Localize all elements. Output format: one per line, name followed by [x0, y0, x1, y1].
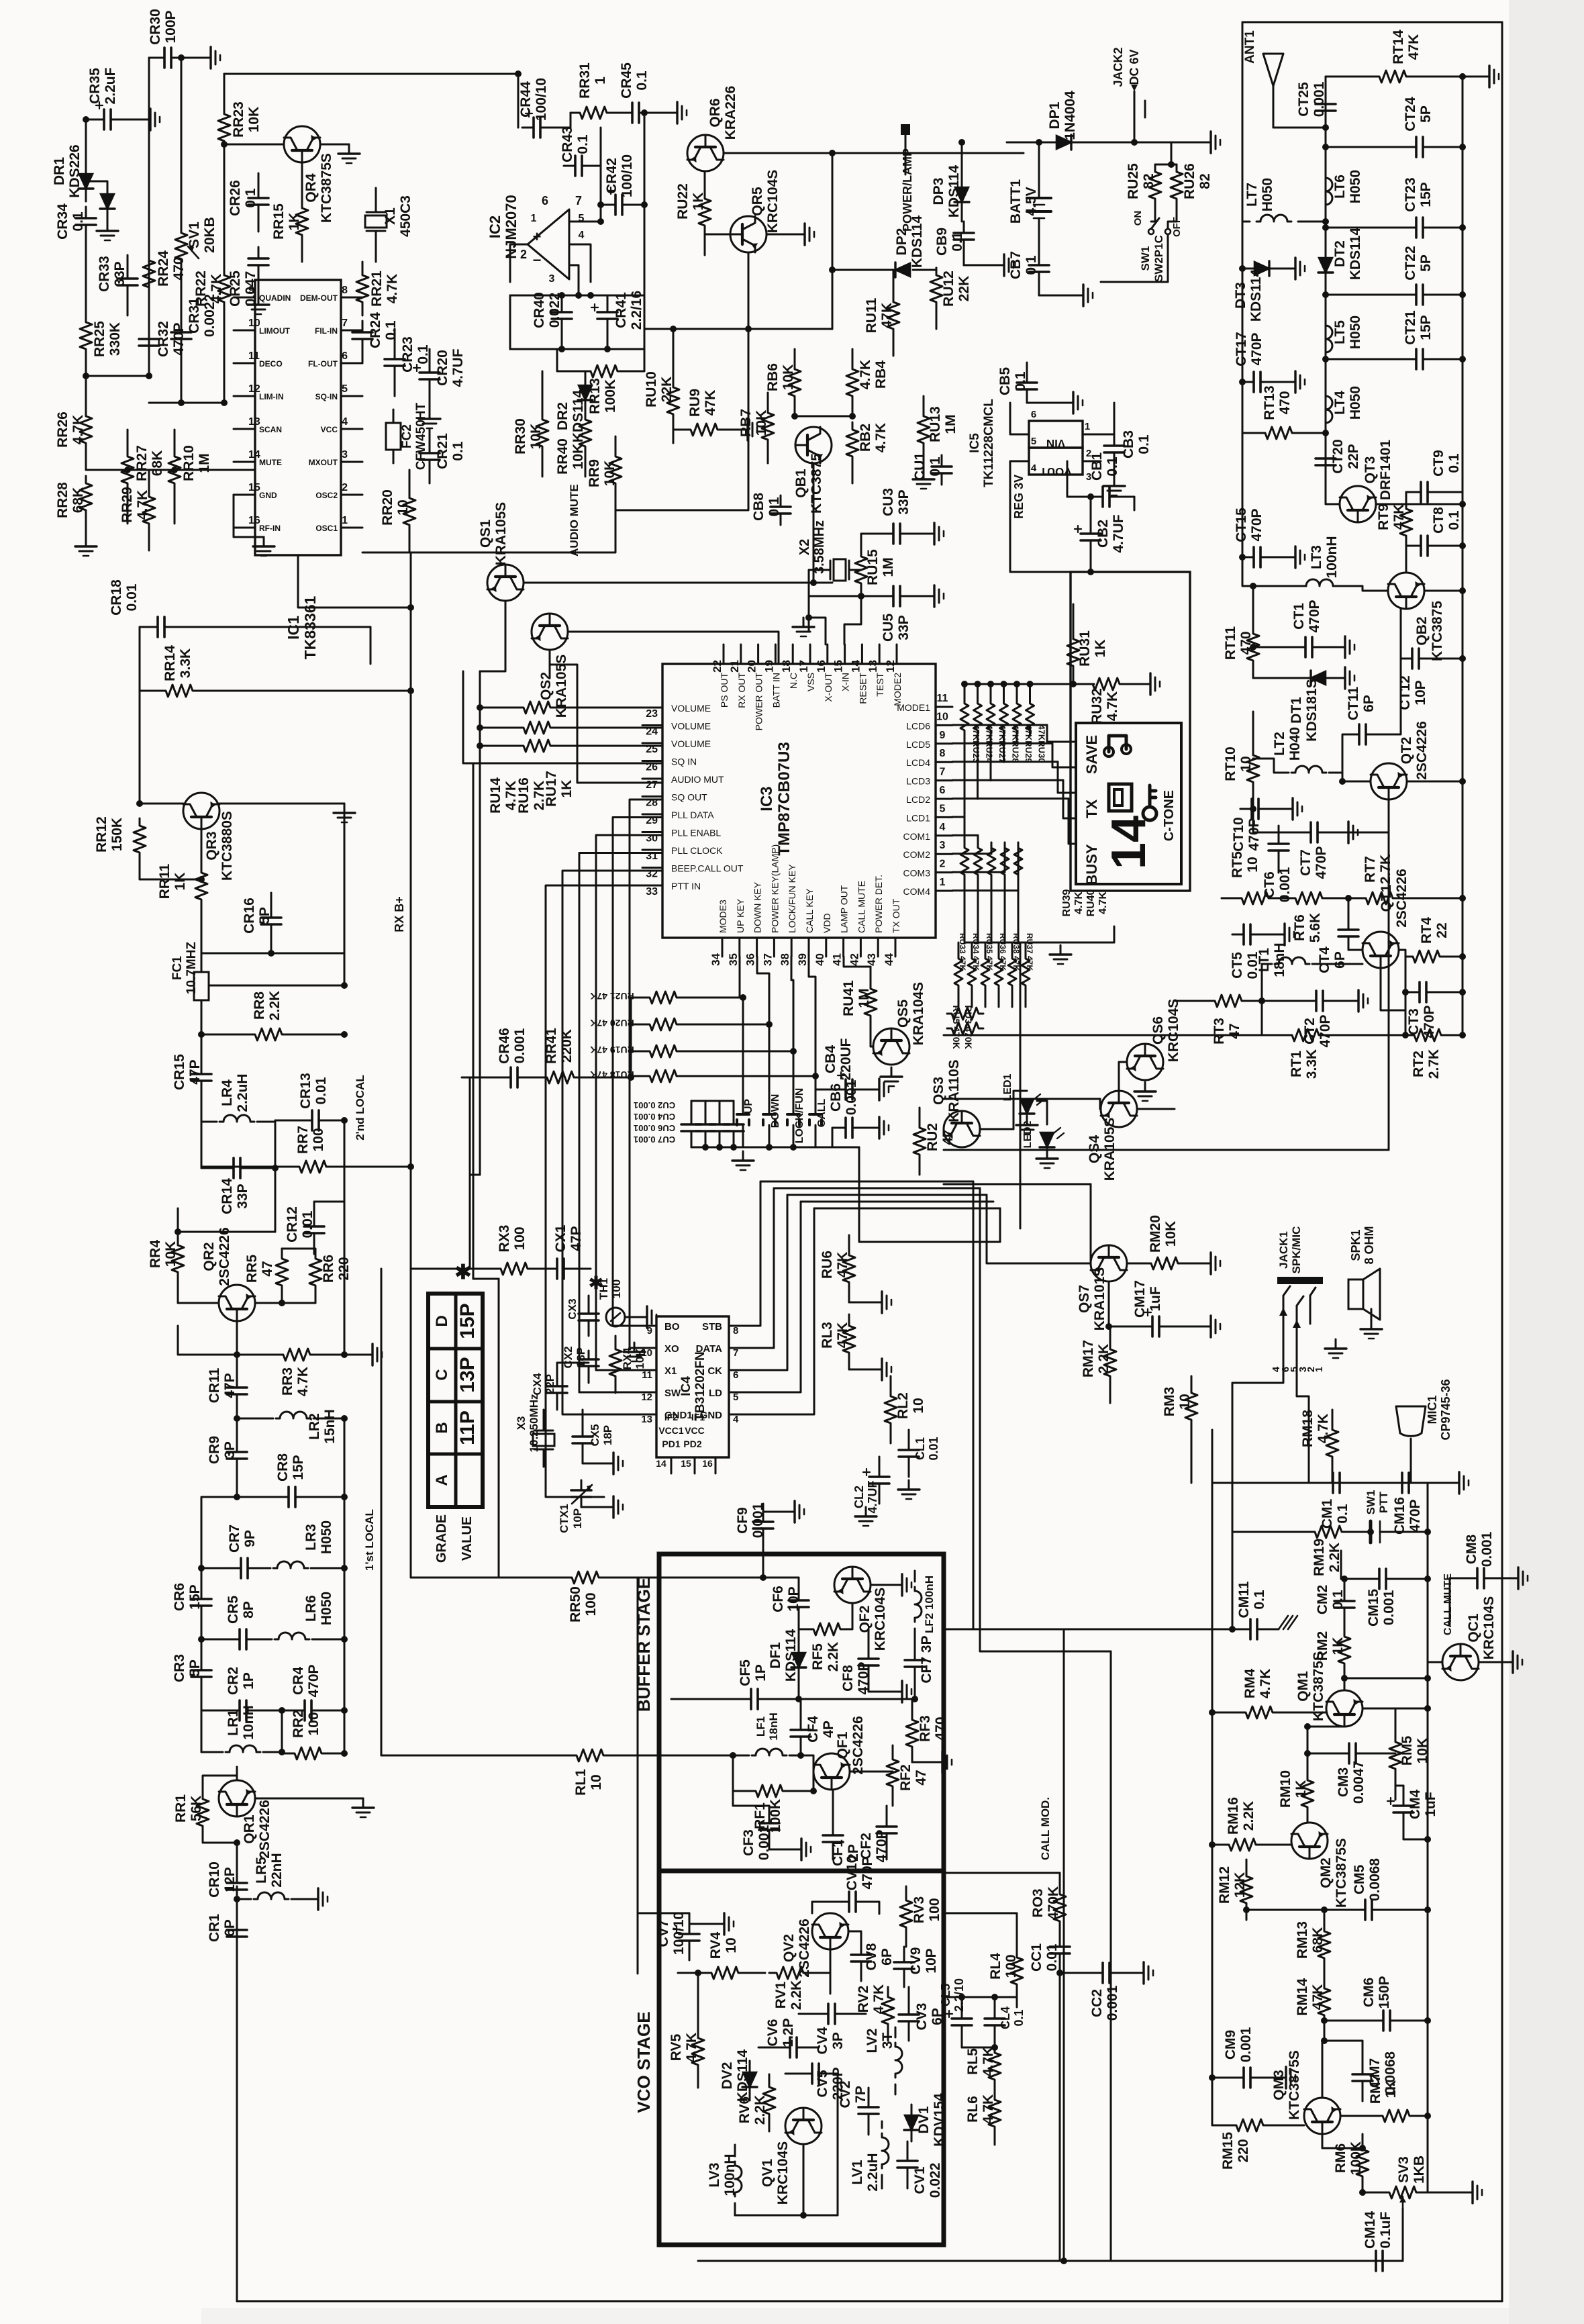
wire IC2 pins right [569, 221, 601, 223]
wire pin41 to RU41 [844, 957, 871, 967]
capacitor CB5 0.1 [1026, 371, 1028, 383]
svg-text:470P: 470P [1249, 332, 1265, 365]
svg-text:−: − [533, 252, 542, 269]
svg-text:DV1: DV1 [916, 2106, 932, 2133]
svg-text:X3: X3 [515, 1416, 528, 1431]
svg-text:CC2: CC2 [1089, 1989, 1105, 2017]
svg-text:38: 38 [779, 953, 791, 966]
capacitor CU1 0.1 [941, 455, 943, 467]
svg-text:QS1: QS1 [478, 520, 493, 548]
svg-text:10K: 10K [781, 365, 796, 391]
svg-text:LCD2: LCD2 [906, 794, 930, 805]
capacitor CF8 470P [868, 1649, 870, 1659]
svg-text:8: 8 [733, 1325, 738, 1337]
svg-text:QR2: QR2 [201, 1242, 217, 1271]
svg-text:IF2: IF2 [664, 1412, 678, 1422]
svg-text:CT4: CT4 [1317, 947, 1332, 973]
wire power/lamp [905, 134, 907, 175]
resistor RR41 220K [540, 1071, 581, 1083]
svg-text:+: + [533, 228, 542, 245]
svg-text:RR27: RR27 [134, 445, 150, 481]
capacitor CR8 15P [277, 1496, 289, 1498]
svg-text:CM9: CM9 [1223, 2030, 1238, 2060]
coil LT1 18nH [1275, 957, 1309, 964]
svg-text:16: 16 [702, 1458, 713, 1469]
svg-text:CR5: CR5 [226, 1596, 241, 1624]
svg-text:LR1: LR1 [226, 1709, 241, 1736]
svg-text:RR1: RR1 [173, 1794, 189, 1823]
resistor RM3 10 [1185, 1388, 1197, 1425]
svg-text:SCAN: SCAN [259, 425, 282, 434]
svg-text:18P: 18P [601, 1425, 614, 1445]
IC1 pin 14 MUTE [234, 461, 255, 463]
resistor RT13 470 [1258, 427, 1299, 439]
resistor RR25 330K [85, 282, 87, 316]
capacitor CV8 6P [860, 1945, 862, 1955]
wire pins nest [630, 800, 662, 1316]
wire [795, 416, 852, 418]
svg-text:REG 3V: REG 3V [1012, 475, 1026, 519]
svg-text:10K: 10K [1415, 1738, 1430, 1764]
IC4 pin 11 X1 [638, 1369, 656, 1371]
LCD icon key [1143, 807, 1156, 820]
wire IC2 out down [411, 510, 615, 552]
svg-text:ON: ON [1132, 211, 1144, 226]
svg-text:MODE3: MODE3 [717, 900, 728, 933]
diode DR2 KDS114 [579, 385, 592, 400]
svg-text:68K: 68K [150, 450, 165, 477]
wire QS7 base [987, 1195, 1091, 1263]
transistor QB1 KTC3875 [795, 427, 832, 463]
svg-text:100/10: 100/10 [534, 78, 549, 121]
svg-text:CR42: CR42 [604, 158, 620, 194]
transistor QR5 KRC104S [730, 216, 766, 252]
svg-text:CR34: CR34 [55, 203, 70, 240]
capacitor CT5 0.01 [1232, 934, 1244, 936]
svg-text:0.1: 0.1 [383, 320, 399, 340]
svg-text:10.250MHz: 10.250MHz [528, 1394, 540, 1453]
svg-text:CU2 0.001: CU2 0.001 [634, 1100, 675, 1110]
svg-text:12: 12 [641, 1392, 652, 1403]
svg-text:SPK1: SPK1 [1349, 1229, 1363, 1261]
resistor RR6 220 [309, 1254, 321, 1290]
svg-text:RT9: RT9 [1376, 503, 1391, 530]
svg-text:KTC3875: KTC3875 [1430, 601, 1445, 661]
svg-text:CT24: CT24 [1403, 97, 1418, 132]
svg-text:RV1: RV1 [773, 1981, 789, 2008]
ground [898, 1480, 920, 1499]
svg-text:11: 11 [937, 693, 948, 704]
ground [769, 1849, 792, 1851]
svg-text:2.2K: 2.2K [1096, 1344, 1111, 1373]
capacitor CR31 0.0022 [181, 321, 183, 332]
capacitor CR25 0.047 [258, 247, 260, 258]
IC4 pin 4 GND [729, 1414, 748, 1416]
coil LT7 H050 [1242, 221, 1250, 223]
svg-text:RT7: RT7 [1363, 856, 1378, 883]
LCD display face [1076, 723, 1181, 884]
IC3 pin 41 LAMP OUT [842, 938, 844, 957]
ground [1016, 1116, 1038, 1134]
capacitor CM6 150P [1372, 2020, 1383, 2022]
svg-text:CB1: CB1 [1089, 452, 1105, 481]
svg-text:5: 5 [1031, 436, 1036, 447]
resistor RU10 22K [667, 380, 679, 422]
svg-text:1K: 1K [1293, 1780, 1309, 1798]
IC IC3 TMP87CB07U3 body [662, 664, 936, 938]
transistor QF2 KRC104S [834, 1567, 871, 1603]
svg-text:QB1: QB1 [793, 469, 809, 498]
svg-text:CT8: CT8 [1431, 507, 1446, 534]
svg-text:0.01: 0.01 [927, 1437, 940, 1460]
svg-text:7: 7 [575, 194, 582, 207]
wire [201, 933, 344, 953]
svg-text:X-IN: X-IN [840, 673, 851, 691]
wire IC4 right to up [748, 1181, 760, 1326]
svg-text:PLL DATA: PLL DATA [671, 810, 714, 820]
capacitor CTX1 10P variable [581, 1480, 583, 1490]
svg-text:0.01: 0.01 [313, 1077, 329, 1104]
svg-text:33: 33 [646, 886, 658, 898]
capacitor CU4 0.001 [705, 1116, 707, 1124]
IC3 pin 44 TX OUT [895, 938, 897, 957]
svg-text:0.1: 0.1 [1013, 371, 1028, 391]
svg-text:RR7: RR7 [295, 1126, 311, 1154]
svg-text:10P: 10P [786, 1586, 801, 1611]
svg-text:2.2uH: 2.2uH [865, 2153, 881, 2191]
svg-text:470: 470 [1238, 631, 1254, 655]
svg-text:QR4: QR4 [303, 173, 319, 203]
svg-text:KDS181S: KDS181S [1304, 679, 1320, 741]
resistor RU28 47K [1003, 684, 1005, 698]
wire top mid link [517, 74, 519, 128]
svg-text:QR1: QR1 [242, 1814, 257, 1844]
svg-text:DP3: DP3 [931, 178, 946, 205]
svg-text:CT9: CT9 [1431, 450, 1446, 477]
svg-text:12P: 12P [222, 1867, 238, 1892]
wire [148, 58, 150, 366]
IC4 pin 5 LD [729, 1392, 748, 1394]
svg-text:8: 8 [342, 285, 348, 296]
svg-text:RR9: RR9 [587, 459, 602, 487]
coil LR5 22nH [254, 1892, 289, 1899]
filter FC1 10.7MHZ [194, 972, 209, 1000]
svg-text:SQ OUT: SQ OUT [671, 792, 707, 803]
svg-text:1: 1 [342, 515, 348, 526]
svg-text:CR6: CR6 [172, 1583, 187, 1611]
svg-text:RU22: RU22 [675, 183, 691, 220]
resistor RU16 2.7K [516, 722, 558, 734]
resistor RU41 1M [864, 981, 877, 1023]
svg-text:470: 470 [1277, 391, 1293, 414]
svg-text:4.7UF: 4.7UF [866, 1480, 879, 1513]
svg-text:RR41: RR41 [544, 1028, 559, 1064]
svg-text:X-OUT: X-OUT [823, 673, 834, 702]
svg-text:CR24: CR24 [368, 312, 383, 348]
IC3 pin 30 PLL ENABL [642, 831, 662, 833]
svg-text:CV8: CV8 [864, 1943, 879, 1970]
svg-text:1uF: 1uF [1148, 1286, 1163, 1312]
svg-text:RL1: RL1 [573, 1769, 589, 1796]
resistor RU6 47K [843, 1250, 855, 1288]
speaker SPK1 8 OHM [1348, 1279, 1363, 1309]
svg-text:RU36 47K: RU36 47K [998, 933, 1007, 971]
svg-text:0.047: 0.047 [243, 271, 258, 307]
svg-text:33P: 33P [235, 1183, 250, 1208]
resistor RB4 4.7K [846, 362, 858, 403]
svg-text:1KB: 1KB [1412, 2156, 1427, 2184]
svg-text:CR46: CR46 [497, 1028, 512, 1064]
svg-text:1: 1 [1314, 1367, 1325, 1372]
svg-text:LCD6: LCD6 [906, 720, 930, 731]
svg-text:RR2: RR2 [291, 1710, 306, 1738]
diode DP3 KDS114 [955, 187, 969, 202]
capacitor CF3 0.001 [769, 1813, 771, 1823]
wire IC5 [1083, 403, 1114, 434]
svg-text:CR33: CR33 [97, 256, 112, 292]
wire [1402, 2209, 1404, 2261]
svg-text:10: 10 [936, 711, 948, 722]
svg-text:BATT IN: BATT IN [771, 673, 781, 708]
svg-text:33P: 33P [896, 615, 911, 640]
svg-text:CT22: CT22 [1403, 246, 1418, 280]
svg-text:KTC3880S: KTC3880S [219, 811, 235, 881]
svg-text:CR35: CR35 [87, 68, 103, 104]
svg-text:6: 6 [940, 785, 946, 796]
svg-text:0.001: 0.001 [1105, 1985, 1120, 2021]
svg-text:RU9: RU9 [687, 389, 703, 417]
wire QT2 emitter [1324, 800, 1389, 832]
svg-text:10K: 10K [163, 1241, 179, 1267]
transistor QS6 KRC104S [1127, 1044, 1163, 1080]
svg-text:RV6: RV6 [737, 2096, 752, 2123]
transistor QS2 KRA105S [532, 614, 568, 650]
resistor RR10 1M [168, 449, 181, 491]
svg-text:RU25: RU25 [1126, 163, 1141, 199]
wire bottom-left vertical [411, 1268, 470, 1270]
wire QT1 emitter [1381, 968, 1405, 1010]
svg-text:CR18: CR18 [109, 579, 124, 616]
wire RM3 to bus [1191, 1443, 1193, 1483]
svg-text:47P: 47P [568, 1226, 584, 1251]
svg-text:0.001: 0.001 [1311, 81, 1327, 117]
svg-text:QS2: QS2 [538, 672, 554, 700]
svg-text:27: 27 [646, 779, 658, 791]
wire [1240, 808, 1253, 810]
svg-text:0.1: 0.1 [1024, 255, 1039, 275]
capacitor CR5 8P [228, 1639, 240, 1641]
resistor RR2 100 [287, 1747, 329, 1759]
svg-text:220: 220 [1236, 2139, 1251, 2162]
svg-text:QT1: QT1 [1379, 884, 1394, 912]
svg-text:QS3: QS3 [931, 1077, 946, 1105]
svg-text:RU18 47K: RU18 47K [590, 1069, 634, 1080]
svg-text:10K: 10K [602, 461, 617, 487]
svg-text:QV1: QV1 [760, 2159, 775, 2187]
capacitor CC1 0.01 [1059, 1937, 1061, 1947]
svg-text:CM14: CM14 [1363, 2211, 1378, 2249]
svg-text:RU35 47K: RU35 47K [985, 933, 994, 971]
svg-text:56K: 56K [189, 1796, 204, 1822]
resistor RR5 47 [276, 1254, 288, 1290]
capacitor CR3 5P [201, 1659, 203, 1670]
svg-text:CR10: CR10 [207, 1861, 222, 1898]
svg-text:LT5: LT5 [1332, 320, 1348, 344]
jack JACK2 DC 6V [1134, 91, 1136, 117]
capacitor CV6 1.2P [779, 2047, 790, 2049]
svg-text:RU16: RU16 [516, 777, 532, 814]
IC3 pin 16 X-OUT [826, 644, 828, 664]
resistor RB2 4.7K [846, 422, 858, 464]
svg-text:18nH: 18nH [1272, 942, 1287, 977]
diode DV2 KDS114 [743, 2072, 756, 2087]
wire [362, 552, 411, 554]
svg-text:100: 100 [1003, 1954, 1019, 1978]
capacitor CT6 0.001 [1278, 832, 1280, 844]
IC1 pin 5 SQ-IN [341, 395, 362, 397]
svg-text:SQ IN: SQ IN [671, 757, 697, 767]
svg-text:2.7K: 2.7K [1378, 855, 1393, 884]
svg-text:TEST: TEST [875, 673, 885, 697]
svg-text:470P: 470P [874, 1829, 889, 1862]
svg-text:4.7K: 4.7K [1316, 1414, 1331, 1443]
svg-text:41: 41 [831, 953, 844, 966]
IC1 pin 16 RF-IN [234, 527, 255, 529]
svg-text:CM8: CM8 [1464, 1535, 1479, 1565]
capacitor CF9 0.001 [762, 1512, 764, 1522]
transistor QV1 KRC104S [785, 2108, 822, 2144]
wire 1st local [381, 1269, 383, 1755]
resistor RU32 4.7K [1085, 678, 1127, 690]
resistor RB7 10K [762, 405, 774, 447]
capacitor CR18 0.01 [140, 626, 151, 628]
svg-text:POWER/LAMP: POWER/LAMP [901, 148, 914, 232]
svg-text:RU14: RU14 [488, 777, 503, 814]
ground [75, 537, 97, 556]
resistor RR23 10K [224, 74, 226, 107]
svg-text:RT10: RT10 [1223, 746, 1238, 781]
wire audio buses [1211, 1430, 1214, 2125]
resistor RX4 10K [609, 1344, 622, 1382]
capacitor CT9 0.1 [1409, 491, 1421, 493]
svg-text:4.7K: 4.7K [981, 2047, 996, 2076]
wire call mod bus [973, 1629, 1232, 1631]
IC3 pin 38 LOCK/FUN KEY [791, 938, 793, 957]
svg-text:6: 6 [542, 194, 548, 207]
transistor QR3 KTC3880S [183, 793, 219, 829]
resistor RU29 47K [1016, 684, 1018, 698]
svg-text:TK11228CMCL: TK11228CMCL [982, 399, 996, 487]
svg-text:QR5: QR5 [750, 187, 765, 216]
resistor RM4 4.7K [1238, 1706, 1280, 1718]
IC3 pin 19 BATT IN [775, 644, 777, 664]
diode DV1 KDV154 [905, 2115, 918, 2130]
svg-text:CV3: CV3 [914, 2003, 930, 2031]
IC IC1 TK83361 body [255, 280, 341, 555]
svg-text:4.7K: 4.7K [135, 490, 150, 520]
svg-text:XO: XO [664, 1343, 679, 1355]
wire RF rail [1273, 127, 1326, 129]
resistor RU30 47K [1029, 684, 1031, 698]
wire [1134, 117, 1136, 142]
svg-text:KDV154: KDV154 [932, 2093, 947, 2147]
wire lcd bottom bus [964, 942, 1114, 944]
resistor RL4 100 [1011, 1952, 1023, 1990]
wire [961, 142, 963, 175]
svg-text:15P: 15P [1418, 315, 1434, 340]
svg-text:10P: 10P [1413, 680, 1428, 705]
svg-text:3: 3 [342, 449, 348, 461]
ground [624, 1343, 645, 1361]
resistor RT6 5.6K [1288, 892, 1330, 904]
wire [149, 402, 224, 404]
IC3 pin 42 CALL MUTE [860, 938, 862, 957]
IC3 pin 9 LCD5 [936, 742, 952, 744]
svg-text:9: 9 [647, 1325, 652, 1337]
svg-text:1P: 1P [241, 1672, 256, 1690]
svg-text:0.1: 0.1 [766, 497, 782, 517]
capacitor CM9 0.001 [1232, 2077, 1244, 2079]
svg-text:0.001: 0.001 [1381, 1590, 1397, 1625]
svg-text:JACK2: JACK2 [1111, 47, 1125, 87]
svg-text:2SC4226: 2SC4226 [1414, 721, 1430, 780]
coil LR3 H050 [273, 1561, 308, 1568]
IC4 pin 9 BO [638, 1325, 656, 1327]
svg-text:RM3: RM3 [1162, 1387, 1177, 1416]
svg-text:CV10: CV10 [844, 1855, 860, 1891]
coil LF2 100nH [915, 1587, 922, 1622]
svg-text:CL4: CL4 [999, 2006, 1012, 2029]
ground [1027, 402, 1064, 404]
capacitor CB2 4.7UF [1090, 524, 1092, 534]
capacitor CR15 47P [201, 1063, 203, 1074]
transistor QS3 KRA110S [944, 1111, 980, 1147]
svg-text:KRC104S: KRC104S [775, 2141, 791, 2205]
svg-text:H050: H050 [319, 1592, 334, 1625]
capacitor CT23 15P [1405, 227, 1416, 229]
resistor RR21 4.7K [356, 268, 368, 309]
svg-text:82: 82 [1197, 173, 1213, 189]
svg-text:CM15: CM15 [1366, 1589, 1381, 1627]
svg-text:4.7UF: 4.7UF [1111, 514, 1126, 552]
svg-text:40: 40 [813, 953, 826, 966]
svg-text:3P: 3P [222, 1441, 238, 1459]
resistor RM7 1K [1375, 2110, 1417, 2122]
capacitor CX4 22P [556, 1377, 558, 1386]
ground [625, 1316, 638, 1318]
ground [738, 419, 757, 440]
resistor RF3 470 [906, 1714, 918, 1752]
svg-text:RB7: RB7 [738, 409, 754, 437]
svg-text:0.001: 0.001 [1238, 2027, 1254, 2062]
svg-text:LF2 100nH: LF2 100nH [923, 1576, 936, 1633]
svg-text:3T: 3T [880, 2033, 895, 2049]
svg-text:6: 6 [1031, 409, 1036, 420]
svg-text:KRA110S: KRA110S [946, 1059, 962, 1122]
svg-text:100nH: 100nH [722, 2153, 738, 2196]
svg-text:MXOUT: MXOUT [309, 458, 338, 467]
svg-text:DOWN KEY: DOWN KEY [752, 881, 763, 933]
wire [510, 295, 644, 297]
svg-text:POWER OUT: POWER OUT [754, 673, 764, 731]
resistor RV1 2.2K [769, 1967, 811, 1979]
coil LT4 H050 [1326, 392, 1332, 427]
svg-text:RF5: RF5 [810, 1643, 826, 1670]
capacitor CM15 0.001 [1368, 1578, 1379, 1580]
svg-text:CR30: CR30 [148, 9, 163, 45]
svg-text:CF7 3P: CF7 3P [919, 1635, 934, 1683]
wire PLL lines to IC4 [630, 1316, 638, 1348]
